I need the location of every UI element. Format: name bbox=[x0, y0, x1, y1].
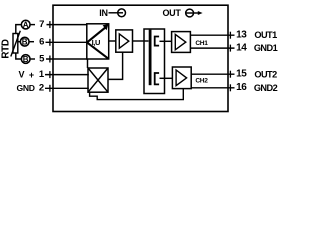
svg-text:1: 1 bbox=[39, 69, 45, 80]
svg-text:GND1: GND1 bbox=[254, 43, 278, 53]
svg-text:7: 7 bbox=[39, 19, 44, 30]
svg-text:CH1: CH1 bbox=[195, 40, 208, 47]
svg-text:I,U: I,U bbox=[92, 38, 100, 47]
svg-text:GND2: GND2 bbox=[254, 83, 278, 93]
svg-text:14: 14 bbox=[236, 43, 247, 54]
svg-text:15: 15 bbox=[236, 69, 247, 80]
svg-text:B: B bbox=[23, 55, 29, 64]
svg-text:V: V bbox=[18, 69, 24, 79]
svg-text:GND: GND bbox=[16, 83, 34, 93]
svg-text:CH2: CH2 bbox=[195, 78, 208, 85]
svg-text:OUT1: OUT1 bbox=[254, 30, 277, 40]
svg-text:B: B bbox=[22, 38, 28, 47]
svg-text:OUT: OUT bbox=[162, 8, 181, 18]
svg-text:+: + bbox=[29, 70, 34, 80]
svg-text:6: 6 bbox=[39, 37, 44, 48]
svg-text:OUT2: OUT2 bbox=[254, 69, 277, 79]
svg-text:RTD: RTD bbox=[1, 39, 12, 58]
svg-text:2: 2 bbox=[39, 82, 44, 93]
svg-text:5: 5 bbox=[39, 53, 45, 64]
svg-text:13: 13 bbox=[236, 30, 247, 41]
svg-text:A: A bbox=[23, 21, 29, 30]
svg-text:16: 16 bbox=[236, 82, 247, 93]
svg-text:IN: IN bbox=[99, 8, 107, 18]
